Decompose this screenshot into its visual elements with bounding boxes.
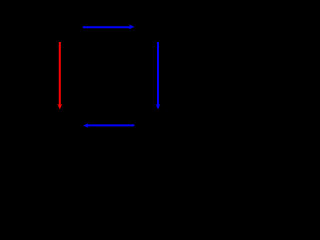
arrow left (red, points down) <box>57 42 62 110</box>
arrow right (blue, points down) <box>156 42 161 110</box>
arrow bottom (blue, points left) <box>83 123 134 128</box>
arrow top (blue, points right) <box>83 25 135 30</box>
